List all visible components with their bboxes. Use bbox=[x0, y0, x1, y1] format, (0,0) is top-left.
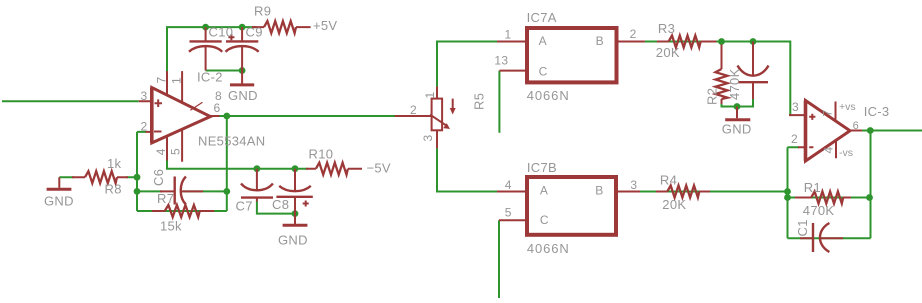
svg-text:6: 6 bbox=[214, 101, 221, 115]
svg-text:7: 7 bbox=[154, 77, 168, 84]
svg-text:1: 1 bbox=[170, 77, 184, 84]
svg-text:4: 4 bbox=[154, 148, 168, 155]
svg-text:+5V: +5V bbox=[313, 18, 337, 33]
svg-text:6: 6 bbox=[853, 120, 859, 132]
svg-text:R9: R9 bbox=[254, 4, 271, 19]
svg-text:IC-3: IC-3 bbox=[864, 104, 890, 119]
svg-text:GND: GND bbox=[278, 233, 308, 248]
svg-text:R3: R3 bbox=[658, 21, 675, 36]
svg-text:IC7A: IC7A bbox=[527, 10, 557, 25]
svg-text:C6: C6 bbox=[151, 169, 166, 186]
svg-text:−5V: −5V bbox=[367, 160, 391, 175]
svg-text:4066N: 4066N bbox=[527, 88, 570, 103]
svg-text:20K: 20K bbox=[662, 197, 686, 212]
svg-text:GND: GND bbox=[722, 122, 752, 137]
svg-text:C1: C1 bbox=[795, 219, 810, 236]
svg-text:13: 13 bbox=[494, 54, 508, 68]
svg-text:GND: GND bbox=[228, 88, 258, 103]
svg-text:5: 5 bbox=[169, 148, 183, 155]
svg-text:4: 4 bbox=[822, 147, 836, 154]
svg-text:3: 3 bbox=[630, 178, 637, 192]
svg-text:2: 2 bbox=[791, 132, 798, 146]
svg-text:C8: C8 bbox=[272, 197, 289, 212]
svg-text:R2: R2 bbox=[705, 88, 720, 105]
svg-text:R8: R8 bbox=[105, 182, 122, 197]
svg-text:IC7B: IC7B bbox=[527, 160, 557, 175]
svg-text:20K: 20K bbox=[656, 45, 680, 60]
svg-text:2: 2 bbox=[410, 103, 417, 117]
svg-text:R1: R1 bbox=[804, 180, 821, 195]
svg-text:NE5534AN: NE5534AN bbox=[198, 134, 265, 149]
svg-text:R4: R4 bbox=[660, 173, 677, 188]
svg-text:3: 3 bbox=[141, 89, 148, 103]
svg-text:7: 7 bbox=[821, 110, 835, 117]
svg-text:GND: GND bbox=[44, 194, 74, 209]
svg-text:3: 3 bbox=[792, 100, 799, 114]
svg-text:3: 3 bbox=[421, 135, 435, 142]
svg-text:C9: C9 bbox=[246, 25, 263, 40]
svg-text:A: A bbox=[539, 34, 547, 48]
svg-text:C: C bbox=[539, 64, 548, 78]
svg-text:R10: R10 bbox=[309, 147, 334, 162]
svg-text:+vs: +vs bbox=[839, 101, 856, 113]
svg-text:2: 2 bbox=[141, 120, 148, 134]
svg-text:B: B bbox=[596, 34, 604, 48]
svg-text:-vs: -vs bbox=[839, 147, 853, 159]
svg-text:470K: 470K bbox=[803, 203, 835, 218]
svg-text:15k: 15k bbox=[160, 219, 182, 234]
svg-text:470K: 470K bbox=[727, 68, 742, 100]
svg-text:A: A bbox=[540, 183, 548, 197]
svg-text:C: C bbox=[540, 213, 549, 227]
svg-text:2: 2 bbox=[630, 27, 637, 41]
svg-text:5: 5 bbox=[505, 206, 512, 220]
svg-text:C7: C7 bbox=[236, 199, 253, 214]
svg-text:C10: C10 bbox=[209, 25, 234, 40]
svg-text:1k: 1k bbox=[107, 156, 122, 171]
svg-text:R7: R7 bbox=[157, 191, 174, 206]
svg-text:B: B bbox=[595, 183, 603, 197]
svg-text:IC-2: IC-2 bbox=[197, 70, 223, 85]
svg-text:4: 4 bbox=[505, 178, 512, 192]
svg-text:1: 1 bbox=[423, 92, 437, 99]
svg-text:R5: R5 bbox=[472, 93, 487, 110]
svg-text:4066N: 4066N bbox=[527, 241, 570, 256]
svg-text:1: 1 bbox=[505, 28, 512, 42]
